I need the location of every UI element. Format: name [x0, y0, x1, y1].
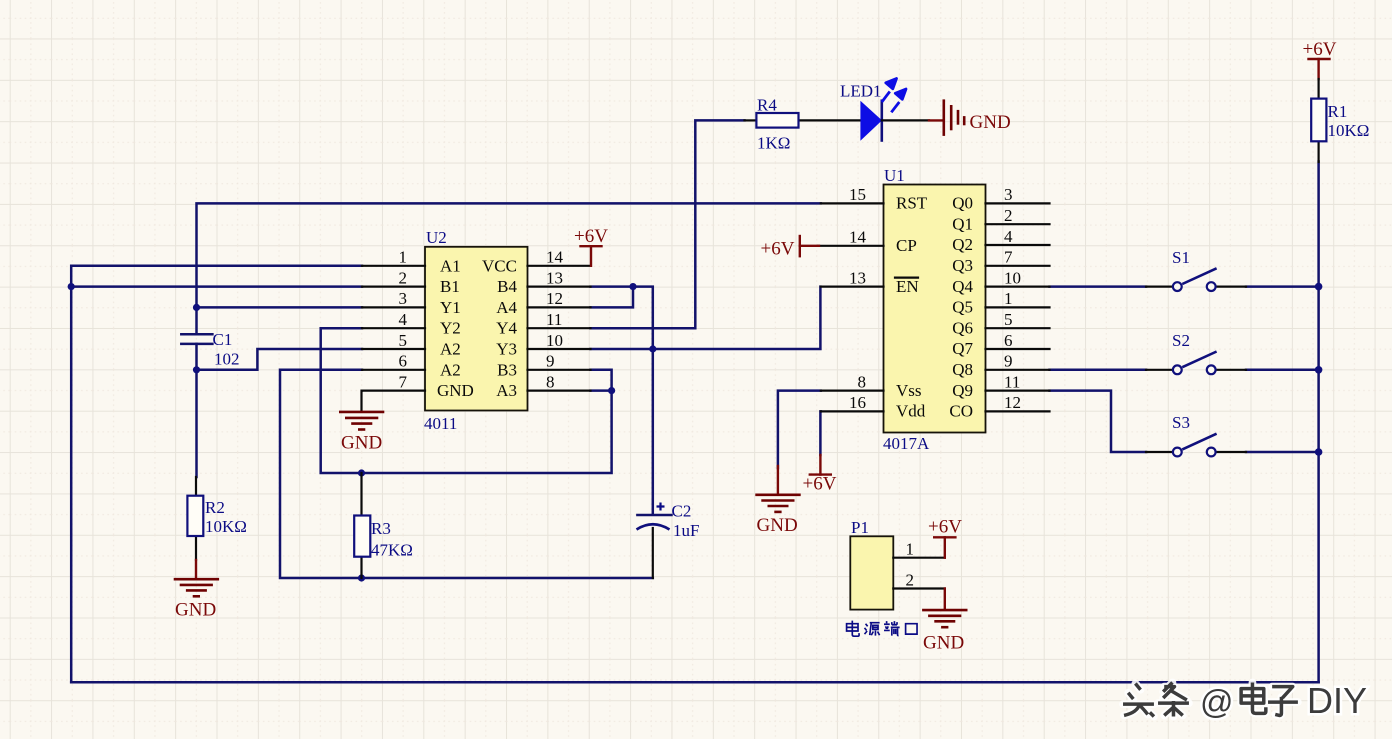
svg-text:16: 16	[849, 393, 866, 412]
svg-text:7: 7	[399, 372, 408, 391]
label 电源端口 (power port) hand-drawn glyphs	[847, 621, 917, 637]
power +6V top right	[1303, 39, 1337, 79]
U1 pin 9 Q8	[986, 352, 1050, 371]
glyph 口	[906, 624, 917, 634]
svg-text:A2: A2	[440, 360, 461, 379]
wire LED cathode to GND	[882, 119, 943, 121]
U1 pin 14 CP	[818, 228, 884, 247]
capacitor C1 102	[181, 330, 239, 369]
U2 pin 3	[362, 289, 425, 308]
wire Y3 net: U2 pin10 to U1 EN pin13	[591, 287, 821, 349]
U1 pin 11 Q9	[986, 372, 1050, 391]
svg-text:R2: R2	[205, 498, 225, 517]
svg-text:R4: R4	[757, 96, 777, 115]
svg-text:4011: 4011	[424, 414, 457, 433]
U2 pin 7	[362, 372, 425, 391]
U2 pin 6	[362, 352, 425, 371]
resistor R1 10K	[1311, 79, 1369, 162]
resistor R2 10K	[187, 477, 247, 560]
svg-text:Q6: Q6	[952, 318, 973, 337]
power +6V at U1 CP pin14	[761, 236, 820, 260]
svg-text:RST: RST	[896, 194, 928, 213]
watermark glyph 条	[1158, 683, 1189, 717]
svg-text:8: 8	[858, 372, 867, 391]
svg-text:8: 8	[546, 372, 555, 391]
resistor R3 47K	[354, 473, 413, 578]
U2 pin 13	[528, 268, 591, 287]
wire U2 pin3 to C1 net	[197, 306, 363, 309]
U1 pin 1 Q5	[986, 289, 1050, 308]
svg-text:S3: S3	[1172, 413, 1190, 432]
capacitor C2 1uF polarized	[637, 502, 700, 579]
LED1	[840, 79, 906, 142]
wire R2 to GND	[195, 560, 197, 579]
svg-text:47KΩ: 47KΩ	[371, 541, 413, 560]
svg-text:CP: CP	[896, 236, 917, 255]
svg-text:B3: B3	[497, 360, 517, 379]
watermark glyph 头	[1123, 684, 1154, 717]
junction R3 bottom	[358, 574, 365, 581]
svg-text:C2: C2	[672, 502, 692, 521]
wire net RST: U1 pin15 to C1 top / U2 net	[197, 203, 821, 334]
glyph 端	[884, 621, 900, 636]
watermark glyph 电	[1241, 683, 1266, 714]
svg-text:9: 9	[546, 352, 555, 371]
switch S3	[1146, 413, 1246, 456]
resistor R4 1K	[745, 96, 861, 153]
U1 pin 3 Q0	[986, 185, 1050, 204]
svg-text:DIY: DIY	[1307, 680, 1367, 721]
watermark 头条 @电子DIY	[1123, 683, 1298, 717]
svg-text:+6V: +6V	[574, 226, 608, 247]
U2 pin 9	[528, 352, 591, 371]
U1 pin 16 Vdd	[821, 393, 884, 412]
svg-text:A4: A4	[496, 298, 517, 317]
svg-text:3: 3	[1004, 185, 1013, 204]
power +6V at P1 pin1	[928, 517, 962, 558]
svg-text:+6V: +6V	[761, 239, 795, 260]
svg-text:Q5: Q5	[952, 298, 973, 317]
svg-text:A3: A3	[496, 381, 517, 400]
svg-text:10: 10	[1004, 268, 1021, 287]
svg-text:CO: CO	[949, 402, 973, 421]
junction S1 / right rail	[1315, 283, 1323, 291]
svg-text:4: 4	[399, 310, 408, 329]
svg-text:Y3: Y3	[496, 340, 517, 359]
svg-text:Q0: Q0	[952, 194, 973, 213]
wire U2 pin2 to left rail	[71, 285, 362, 288]
wire C2 top branch	[652, 349, 655, 515]
junction Y3 / C2 node	[649, 345, 656, 352]
svg-text:2: 2	[906, 570, 915, 589]
U2 pin 10	[528, 331, 591, 350]
svg-text:U2: U2	[426, 228, 447, 247]
wire Y4 net: U2 pin11 up to R4	[591, 120, 745, 328]
U1 pin 13 EN	[821, 268, 884, 287]
wire P1 pin2 red tail	[944, 589, 946, 610]
U2 pin 14	[528, 248, 591, 267]
svg-text:10: 10	[546, 331, 563, 350]
svg-text:3: 3	[399, 289, 408, 308]
junction C1 top / pin3	[193, 304, 200, 311]
power ground GND (bars) at LED	[944, 101, 1011, 135]
svg-text:6: 6	[1004, 331, 1013, 350]
svg-text:7: 7	[1004, 248, 1013, 267]
svg-text:Q9: Q9	[952, 381, 973, 400]
U1 pin 8 Vss	[821, 372, 884, 391]
wire Q9 jog down to S3	[1050, 391, 1147, 452]
svg-text:13: 13	[546, 268, 563, 287]
U1 pin 6 Q7	[986, 331, 1050, 350]
svg-text:2: 2	[1004, 206, 1013, 225]
wire U2 pin8 A3 to junction	[591, 389, 612, 392]
watermark text @ DIY	[1200, 680, 1367, 721]
glyph 源	[865, 623, 880, 636]
wire U2 pin5 jog to C1 bottom net	[197, 349, 363, 370]
connector P1	[850, 518, 893, 610]
svg-text:11: 11	[546, 310, 562, 329]
junction S2 / right rail	[1315, 366, 1323, 374]
svg-text:12: 12	[546, 289, 563, 308]
P1 pin 1	[893, 540, 945, 559]
svg-text:@: @	[1200, 683, 1234, 720]
junction C1 bottom / pin5 jog	[193, 366, 200, 373]
svg-text:Y4: Y4	[496, 319, 517, 338]
svg-text:9: 9	[1004, 352, 1013, 371]
U2 pin 4	[362, 310, 425, 329]
svg-text:1KΩ: 1KΩ	[757, 134, 790, 153]
svg-text:+6V: +6V	[1303, 39, 1337, 60]
wire Q4 row to S1	[1050, 285, 1147, 288]
wire U2 pin13 B4 / pin12 A4 tie down to Y3 net	[591, 287, 653, 349]
wire U1 Vdd to +6V below	[819, 411, 822, 455]
U1 pin 7 Q3	[986, 248, 1050, 267]
svg-text:Vdd: Vdd	[896, 402, 926, 421]
earth ground GND at P1 pin2	[923, 610, 966, 653]
svg-text:11: 11	[1004, 372, 1020, 391]
junction left rail pin2	[68, 283, 75, 290]
wire Vss red tail	[777, 466, 779, 494]
wire U1 Vss to GND	[778, 391, 821, 468]
P1 pin 2	[893, 570, 945, 589]
svg-text:VCC: VCC	[482, 256, 517, 275]
svg-text:EN: EN	[896, 277, 919, 296]
wire right rail R1 down to bottom bus	[1317, 162, 1320, 683]
svg-text:4: 4	[1004, 227, 1013, 246]
wire C1 bottom to R2 top	[195, 344, 198, 477]
power +6V at U2 pin14	[574, 226, 608, 266]
switch S1	[1146, 248, 1246, 291]
svg-text:C1: C1	[213, 330, 233, 349]
svg-text:1: 1	[399, 248, 408, 267]
U1 pin 15 RST	[821, 185, 884, 204]
svg-text:A1: A1	[440, 256, 461, 275]
svg-text:5: 5	[399, 331, 408, 350]
svg-text:P1: P1	[851, 518, 869, 537]
U2 pin 11	[528, 310, 591, 329]
wire bottom bus	[71, 681, 1318, 684]
watermark glyph 子	[1268, 687, 1298, 716]
svg-text:GND: GND	[341, 433, 382, 454]
svg-text:R1: R1	[1328, 102, 1348, 121]
svg-text:14: 14	[546, 248, 564, 267]
svg-text:A2: A2	[440, 340, 461, 359]
svg-text:6: 6	[399, 352, 408, 371]
wire U2 pin4 down to R3 top line across to A3/B3	[321, 328, 612, 473]
U1 pin 5 Q6	[986, 310, 1050, 329]
svg-text:B4: B4	[497, 277, 517, 296]
svg-text:LED1: LED1	[840, 82, 882, 101]
U2 pin 8	[528, 372, 591, 391]
earth ground GND below R2	[175, 579, 218, 620]
junction B4-A4 tie	[629, 283, 636, 290]
svg-text:5: 5	[1004, 310, 1013, 329]
svg-text:1uF: 1uF	[673, 521, 699, 540]
svg-text:1: 1	[1004, 289, 1013, 308]
svg-text:B1: B1	[440, 277, 460, 296]
U1 pin 4 Q2	[986, 227, 1050, 246]
svg-text:Y2: Y2	[440, 319, 461, 338]
earth ground GND at U1 Vss	[757, 495, 800, 536]
svg-text:Vss: Vss	[896, 381, 922, 400]
svg-text:+6V: +6V	[928, 517, 962, 538]
svg-text:Q7: Q7	[952, 339, 973, 358]
wire U2 pin1 to left rail and down to bottom bus	[71, 266, 362, 683]
earth ground GND below U2	[340, 412, 383, 454]
svg-text:13: 13	[849, 268, 866, 287]
svg-text:GND: GND	[757, 515, 798, 536]
svg-text:Q3: Q3	[952, 256, 973, 275]
U2 pin 12	[528, 289, 591, 308]
svg-text:GND: GND	[175, 600, 216, 621]
svg-text:Q1: Q1	[952, 214, 973, 233]
svg-text:102: 102	[214, 350, 240, 369]
U1 pin 12 CO	[986, 393, 1050, 412]
svg-text:GND: GND	[437, 381, 474, 400]
svg-text:Q2: Q2	[952, 235, 973, 254]
svg-text:GND: GND	[970, 112, 1011, 133]
junction R3 top	[358, 469, 365, 476]
U1 pin 10 Q4	[986, 268, 1050, 287]
svg-text:R3: R3	[371, 519, 391, 538]
IC U2 4011	[424, 228, 528, 433]
glyph 电	[847, 621, 859, 637]
IC U1 4017A	[883, 166, 986, 453]
power +6V below U1 Vdd (inverted)	[803, 455, 837, 495]
U2 pin 2	[362, 268, 425, 287]
svg-text:12: 12	[1004, 393, 1021, 412]
svg-text:U1: U1	[884, 166, 905, 185]
svg-text:Q8: Q8	[952, 360, 973, 379]
switch S2	[1146, 331, 1246, 374]
svg-text:2: 2	[399, 268, 408, 287]
svg-text:Q4: Q4	[952, 277, 973, 296]
svg-text:15: 15	[849, 185, 866, 204]
wire Q8 row to S2	[1050, 369, 1147, 372]
U2 pin 1	[362, 248, 425, 267]
wire U2 pin6 down to RC bottom line	[280, 370, 653, 578]
U1 pin 2 Q1	[986, 206, 1050, 225]
svg-text:10KΩ: 10KΩ	[205, 517, 247, 536]
junction A3-B3 tie	[608, 387, 615, 394]
svg-text:S1: S1	[1172, 248, 1190, 267]
svg-text:1: 1	[906, 540, 915, 559]
U2 pin7 to earth ground	[360, 391, 363, 411]
svg-text:10KΩ: 10KΩ	[1328, 121, 1370, 140]
svg-text:GND: GND	[923, 633, 964, 654]
svg-text:S2: S2	[1172, 331, 1190, 350]
svg-text:+6V: +6V	[803, 474, 837, 495]
svg-text:Y1: Y1	[440, 298, 461, 317]
svg-text:14: 14	[849, 228, 867, 247]
svg-text:4017A: 4017A	[883, 434, 930, 453]
junction S3 / right rail	[1315, 448, 1323, 456]
U2 pin 5	[362, 331, 425, 350]
